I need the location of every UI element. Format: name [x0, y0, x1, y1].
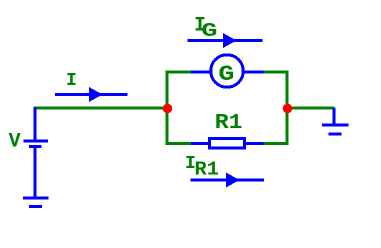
ground left short bar — [29, 205, 42, 208]
node B junction dot — [283, 104, 293, 114]
wire resistor left lead — [191, 142, 209, 145]
ground right short bar — [329, 133, 342, 136]
wire bottom branch right green — [264, 142, 289, 145]
wire main horizontal from battery to node A — [34, 107, 167, 110]
battery V long plate — [23, 140, 48, 143]
arrow I_G — [188, 33, 263, 48]
wire galvanometer right lead — [243, 70, 264, 73]
wire top branch left green — [166, 70, 192, 73]
ground left long bar — [23, 197, 48, 200]
svg-text:R1: R1 — [195, 159, 219, 181]
wire left branch vertical — [166, 71, 169, 146]
svg-text:I: I — [66, 71, 77, 91]
wire battery top vertical — [34, 107, 37, 141]
ground right long bar — [322, 124, 348, 127]
svg-text:G: G — [201, 20, 217, 42]
wire battery bottom vertical — [34, 147, 37, 199]
svg-text:V: V — [9, 131, 21, 154]
label I_G — [194, 14, 218, 42]
svg-text:G: G — [218, 62, 234, 87]
wire right branch vertical — [286, 71, 289, 146]
wire bottom branch left green — [166, 142, 192, 145]
galvanometer G — [211, 55, 244, 88]
node A junction dot — [163, 104, 173, 114]
wire right horizontal to ground — [287, 107, 334, 110]
wire right ground vertical — [333, 108, 336, 126]
arrow I_R1 — [191, 173, 265, 188]
label I_R1 — [185, 154, 219, 181]
battery V short plate — [29, 145, 41, 148]
resistor R1 — [209, 138, 244, 147]
wire galvanometer left lead — [191, 70, 211, 73]
wire top branch right green — [264, 70, 289, 73]
svg-text:R1: R1 — [215, 112, 243, 135]
wire resistor right lead — [246, 142, 264, 145]
arrow I — [55, 87, 128, 102]
